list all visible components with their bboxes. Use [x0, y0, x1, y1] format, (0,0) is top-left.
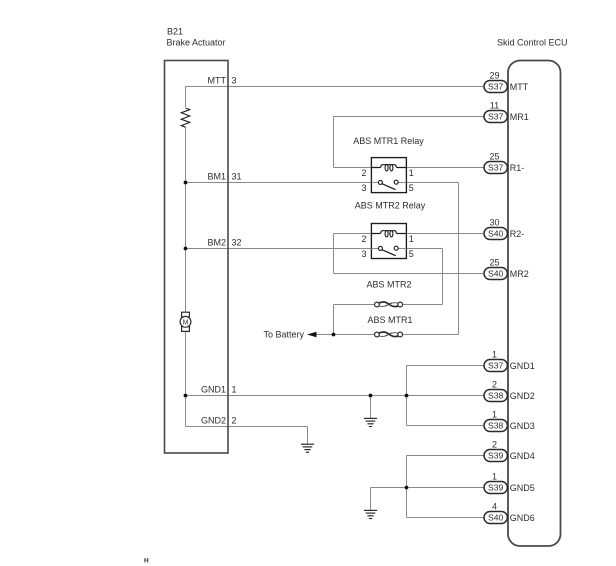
relay2 coil (pins 2-1) [371, 231, 406, 234]
svg-text:29: 29 [489, 70, 499, 80]
svg-text:BM2: BM2 [207, 237, 226, 247]
svg-text:S37: S37 [488, 163, 504, 173]
resistor (solenoid) inside actuator [179, 107, 192, 127]
svg-text:2: 2 [361, 168, 366, 178]
arrow to battery [307, 332, 317, 337]
svg-text:S37: S37 [488, 82, 504, 92]
svg-text:1: 1 [492, 409, 497, 419]
node battery feed junction [332, 333, 336, 337]
svg-text:MTT: MTT [510, 82, 529, 92]
svg-text:GND2: GND2 [510, 391, 535, 401]
wire MR2: ECU S40-25 to relay2 coil feed [334, 273, 485, 275]
svg-text:R1-: R1- [510, 163, 525, 173]
svg-text:BM1: BM1 [207, 171, 226, 181]
svg-text:1: 1 [409, 234, 414, 244]
brake actuator box B21 [165, 61, 229, 454]
motor M (pump motor) [182, 312, 190, 317]
svg-text:GND1: GND1 [510, 361, 535, 371]
node BM2 junction [184, 247, 188, 251]
svg-text:B21: B21 [167, 27, 183, 37]
ground at GND5 row [370, 488, 372, 511]
node ground junction GND row [369, 394, 373, 398]
svg-text:25: 25 [489, 151, 499, 161]
relay2 switch contacts (pins 3-5) [371, 248, 378, 250]
svg-text:1: 1 [492, 349, 497, 359]
svg-text:To Battery: To Battery [264, 330, 305, 340]
ground at actuator GND2 [307, 427, 309, 445]
svg-text:2: 2 [492, 379, 497, 389]
svg-text:GND3: GND3 [510, 421, 535, 431]
svg-text:11: 11 [490, 100, 499, 110]
svg-text:S37: S37 [488, 361, 504, 371]
svg-text:S37: S37 [488, 112, 504, 122]
svg-text:H: H [144, 558, 149, 565]
wire GND5 row: ground to ECU S39 GND5 [371, 487, 485, 489]
svg-text:MR2: MR2 [510, 269, 529, 279]
svg-text:1: 1 [232, 384, 237, 394]
svg-text:ABS MTR1 Relay: ABS MTR1 Relay [353, 136, 424, 146]
svg-text:1: 1 [492, 471, 497, 481]
svg-text:1: 1 [409, 168, 414, 178]
wire MTT: actuator pin 3 to ECU S37-29 [186, 86, 485, 88]
svg-text:MTT: MTT [208, 75, 227, 85]
svg-text:30: 30 [489, 217, 499, 227]
svg-text:Skid Control ECU: Skid Control ECU [497, 38, 568, 48]
svg-text:2: 2 [492, 439, 497, 449]
svg-text:GND2: GND2 [201, 416, 226, 426]
wire: actuator internal vertical bus [185, 87, 187, 427]
wire: ground bus GND4-GND6 [406, 456, 408, 518]
wire R2-: relay2 pin 1 to ECU S40-30 [406, 233, 484, 235]
node GND1 junction at actuator [184, 394, 188, 398]
wire: ABS MTR2 fuse left to battery feed bus [334, 304, 375, 306]
svg-text:2: 2 [361, 234, 366, 244]
wire R1-: relay pin 1 to ECU S37-25 [406, 167, 484, 169]
wire: relay2 pin 5 to ABS MTR2 fuse [406, 248, 442, 250]
svg-text:GND6: GND6 [510, 513, 535, 523]
relay1 coil (pins 2-1) [371, 165, 406, 168]
svg-text:GND4: GND4 [510, 451, 535, 461]
wire: MR2 vertical rise to ABS MTR2 relay pin 2 [333, 234, 335, 274]
wire GND2 row: actuator pin 2 to ground [186, 426, 308, 428]
node BM1 junction [184, 181, 188, 185]
svg-text:3: 3 [232, 75, 237, 85]
svg-text:S38: S38 [488, 391, 504, 401]
svg-text:GND1: GND1 [201, 384, 226, 394]
svg-text:S40: S40 [488, 229, 504, 239]
wire BM1: actuator pin 31 to relay pin 3 [186, 182, 372, 184]
svg-text:S40: S40 [488, 269, 504, 279]
node bus junction GND5 [405, 486, 409, 490]
svg-text:S40: S40 [488, 513, 504, 523]
svg-text:31: 31 [232, 171, 242, 181]
svg-text:S39: S39 [488, 483, 504, 493]
svg-text:5: 5 [409, 249, 414, 259]
svg-text:25: 25 [489, 257, 499, 267]
svg-text:4: 4 [492, 501, 497, 511]
wire: to battery line [315, 334, 375, 336]
ground at GND2 row [370, 396, 372, 419]
relay1 switch contacts (pins 3-5) [371, 182, 378, 184]
svg-text:3: 3 [361, 183, 366, 193]
wire BM2: actuator pin 32 to relay2 pin 3 [186, 248, 372, 250]
svg-text:Brake Actuator: Brake Actuator [167, 38, 226, 48]
svg-text:R2-: R2- [510, 229, 525, 239]
wire: relay1 pin 5 to ABS MTR1 fuse [406, 182, 458, 184]
svg-text:S39: S39 [488, 451, 504, 461]
svg-text:ABS MTR2 Relay: ABS MTR2 Relay [355, 201, 426, 211]
node bus junction GND2 [405, 394, 409, 398]
wire: MR1 vertical drop to ABS MTR1 relay pin 2 [333, 117, 335, 168]
svg-text:ABS MTR1: ABS MTR1 [367, 315, 412, 325]
svg-text:ABS MTR2: ABS MTR2 [366, 280, 411, 290]
svg-text:3: 3 [361, 249, 366, 259]
svg-text:32: 32 [232, 237, 242, 247]
svg-text:2: 2 [232, 416, 237, 426]
wire GND1 row: actuator pin 1 to ECU S38 GND2 [186, 395, 485, 397]
wire: ground bus GND1-GND3 [406, 366, 408, 426]
svg-text:S38: S38 [488, 421, 504, 431]
skid control ECU box [508, 61, 561, 547]
svg-text:5: 5 [409, 183, 414, 193]
svg-text:MR1: MR1 [510, 112, 529, 122]
wire MR1: ECU S37-11 to relay coil feed [334, 116, 485, 118]
svg-text:GND5: GND5 [510, 483, 535, 493]
svg-text:M: M [183, 319, 189, 326]
